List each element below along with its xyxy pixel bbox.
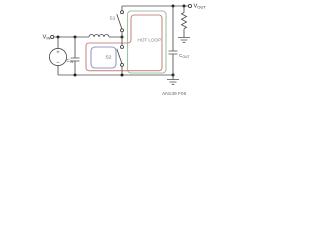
node: CIN bottom <box>74 74 77 77</box>
capacitor COUT <box>169 51 178 54</box>
svg-text:VIN: VIN <box>43 34 51 40</box>
svg-text:CIN: CIN <box>67 58 74 64</box>
terminal VOUT <box>188 4 191 7</box>
capacitor CIN <box>71 58 80 61</box>
node: load junction <box>183 5 186 8</box>
wire: source bottom lead <box>57 66 59 75</box>
loop overlay: green hot loop <box>128 11 167 73</box>
inductor L <box>89 35 109 38</box>
node: S2 bottom <box>121 74 124 77</box>
loop overlay: red off-phase loop <box>86 15 162 71</box>
wire: CIN top lead <box>74 37 76 58</box>
resistor RLOAD <box>182 6 187 38</box>
node: CIN top <box>74 36 77 39</box>
node: COUT top <box>172 5 175 8</box>
svg-text:VOUT: VOUT <box>194 4 207 10</box>
node: VIN junction <box>57 36 60 39</box>
wire: COUT top lead <box>172 6 174 51</box>
ground (output) <box>167 75 179 84</box>
loop overlay: blue input loop <box>91 47 116 68</box>
svg-text:S1: S1 <box>110 16 116 22</box>
terminal VIN <box>51 35 54 38</box>
wire: ground rail <box>58 74 173 76</box>
svg-text:S2: S2 <box>106 55 112 61</box>
switch S1 <box>117 6 124 37</box>
svg-text:HOT LOOP: HOT LOOP <box>138 37 162 42</box>
voltage source V1 <box>49 48 66 65</box>
svg-text:COUT: COUT <box>179 53 190 59</box>
switch S2 <box>117 37 124 75</box>
wire: CIN bottom lead <box>74 61 76 75</box>
wire: input rail <box>54 36 122 38</box>
wire: source top lead <box>57 37 59 48</box>
svg-text:AN139 F06: AN139 F06 <box>162 91 187 97</box>
node: ground junction <box>172 74 175 77</box>
wire: output rail <box>122 5 188 7</box>
node: switch node <box>121 36 124 39</box>
ground (load) <box>178 38 190 43</box>
wire: COUT bottom lead <box>172 54 174 75</box>
